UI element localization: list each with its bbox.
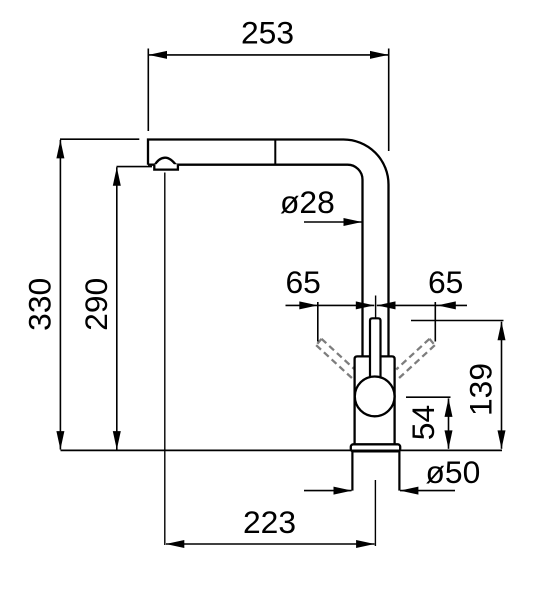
dim 65 right arrow at extension xyxy=(437,301,456,309)
dim 253 extension line left xyxy=(147,49,149,132)
lever stick (upright position) xyxy=(370,318,381,376)
dim 290 arrow bottom xyxy=(113,431,121,450)
dim 139 arrow bottom xyxy=(498,430,506,449)
faucet spout inner contour (bottom edge, inner bend, riser left edge) xyxy=(148,165,363,357)
dim 139 arrow top xyxy=(498,322,506,341)
faucet spout outer contour (top edge, bend, riser right edge) xyxy=(148,140,389,357)
spout joint divider line xyxy=(274,140,276,165)
dim 330 line xyxy=(59,140,61,450)
dim 253 arrow left xyxy=(149,51,168,59)
dim ø28 leader line xyxy=(304,221,362,223)
dim ø50 left line xyxy=(304,490,352,492)
deck / base line xyxy=(61,449,503,451)
svg-text:65: 65 xyxy=(428,264,463,300)
dim 253 arrow right xyxy=(370,51,389,59)
dim 330 arrow bottom xyxy=(56,431,64,450)
dim 65 left arrow at extension xyxy=(299,301,318,309)
dim 223 arrow right xyxy=(356,540,375,548)
dim 290 line xyxy=(116,167,118,449)
svg-text:290: 290 xyxy=(78,278,114,331)
dim 223 line xyxy=(166,543,375,545)
dim 65 right line xyxy=(377,304,467,306)
dim 54 line xyxy=(448,398,450,448)
dim 65 right extension line xyxy=(434,302,436,342)
svg-text:65: 65 xyxy=(286,264,321,300)
dim ø28 leader arrow xyxy=(344,218,363,226)
mixer body top-left xyxy=(355,356,370,444)
svg-text:ø28: ø28 xyxy=(280,184,335,220)
dim 290 arrow top xyxy=(113,167,121,186)
svg-text:253: 253 xyxy=(241,15,294,51)
dim 65 left line xyxy=(286,304,375,306)
base flange xyxy=(351,444,400,451)
svg-text:330: 330 xyxy=(22,278,58,331)
svg-text:223: 223 xyxy=(243,504,296,540)
dim ø50 right arrow xyxy=(400,487,419,495)
dim 253 extension line right xyxy=(388,49,390,152)
svg-text:54: 54 xyxy=(405,405,441,440)
dim 54 arrow top xyxy=(445,398,453,417)
water outlet centerline xyxy=(164,173,166,546)
dim 330 extension line top xyxy=(60,138,139,140)
aerator dome xyxy=(154,158,176,166)
dim 139 line xyxy=(501,322,503,449)
dim 54 arrow bottom xyxy=(445,430,453,449)
shank below deck left xyxy=(351,451,353,490)
body centerline below deck xyxy=(374,480,376,546)
dim 65 left arrow at center xyxy=(356,301,375,309)
shank below deck right xyxy=(398,451,400,490)
dim ø50 right line xyxy=(400,490,455,492)
dim 54 extension line top xyxy=(406,396,451,398)
dim 65 left extension line xyxy=(317,302,319,342)
dim ø50 left arrow xyxy=(334,487,353,495)
svg-text:139: 139 xyxy=(463,363,499,416)
mixer body top-right xyxy=(381,356,395,444)
dim 330 arrow top xyxy=(56,140,64,159)
svg-text:ø50: ø50 xyxy=(426,454,481,490)
dim 65 right arrow at center xyxy=(377,301,396,309)
dashed lever swung right xyxy=(396,339,435,380)
aerator lip xyxy=(154,164,178,169)
dim 139 extension line top xyxy=(411,320,504,322)
dim 223 arrow left xyxy=(166,540,185,548)
swivel ball joint circle xyxy=(355,377,395,417)
body centerline upper tick xyxy=(375,296,377,319)
dim 290 extension line top xyxy=(117,166,153,168)
dim 253 line xyxy=(149,54,389,56)
dashed lever swung left xyxy=(316,339,355,380)
